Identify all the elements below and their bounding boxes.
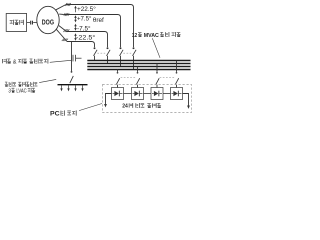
svg-text:&: & [13, 59, 17, 65]
generator DOG [37, 6, 59, 33]
label 12-phase MVAC propulsion bus [132, 32, 181, 39]
label +22.5deg [77, 5, 96, 13]
svg-text:+22.5°: +22.5° [77, 5, 96, 13]
svg-text:MVAC: MVAC [144, 33, 159, 39]
winding stub +22.5 [55, 5, 66, 11]
phasor arrow -22.5 [74, 33, 77, 41]
rectifier feed drop 4 [175, 61, 178, 88]
svg-text:-22.5°: -22.5° [76, 34, 96, 42]
wire sw4 to bus [133, 56, 135, 70]
svg-text:+7.5°: +7.5° [77, 15, 92, 23]
gang link dashes rect 1-2 [121, 77, 136, 79]
phasor arrow +22.5 [74, 6, 77, 13]
wire sw2 to bus [107, 56, 109, 64]
prime mover box (원동기) [6, 14, 26, 32]
gen disconnect switch 2 [107, 47, 111, 56]
gang link dashes rect 3-4 [160, 77, 175, 79]
rectifier feed drop 1 [116, 70, 119, 88]
LVAC feeder arrow 2 [67, 85, 69, 91]
pointer to LVAC bus [39, 79, 56, 82]
label filter & excitation capacitor [2, 59, 48, 66]
gen disconnect switch 1 [94, 47, 98, 56]
winding stub -7.5 [59, 26, 67, 32]
gang link dashes gen 3-4 [123, 52, 131, 54]
MVAC bus line 2 [87, 63, 190, 65]
rectifier feed drop 3 [156, 64, 159, 88]
svg-text:3: 3 [8, 88, 11, 94]
MVAC bus line 1 [87, 60, 190, 62]
diode rectifier box 4 [171, 88, 183, 100]
rectifier feed drop 2 [136, 67, 139, 88]
winding stub +7.5 [59, 13, 64, 15]
LVAC feeder wire [71, 42, 73, 72]
slip-ring hatch 3 [63, 29, 69, 32]
wire +7.5 line [64, 15, 121, 48]
slip-ring hatch 4 [62, 39, 68, 41]
wire sw3 to bus [120, 56, 122, 67]
wire -7.5 line [67, 32, 108, 48]
slip-ring hatch 2 [64, 13, 69, 16]
svg-text:-7.5°: -7.5° [77, 25, 91, 33]
label +7.5deg [77, 15, 92, 23]
label 3-phase LVAC bus line2 [8, 88, 35, 95]
filter capacitor [73, 55, 82, 62]
label to facilities and auxiliaries line1 [5, 82, 38, 87]
diode rectifier box 2 [132, 88, 144, 100]
pointer to capacitor [50, 60, 71, 62]
LVAC feeder arrow 3 [74, 85, 76, 91]
gen disconnect switch 3 [120, 47, 124, 56]
series link left terminal [104, 94, 111, 108]
LVAC feeder arrow 1 [60, 85, 62, 91]
svg-text:PC: PC [50, 111, 60, 118]
diode rectifier box 1 [112, 88, 124, 100]
svg-text:θref: θref [93, 17, 104, 24]
label theta-ref [93, 17, 104, 24]
gen disconnect switch 4 [133, 47, 137, 56]
dashed enclosure PC section [103, 85, 192, 113]
LVAC feeder arrow 4 [81, 85, 83, 91]
phasor arrow +7.5 / ref [74, 15, 77, 22]
series link box2-box3 [144, 93, 152, 95]
3-phase LVAC bus bar [58, 84, 88, 86]
svg-text:12: 12 [132, 33, 137, 39]
svg-text:LVAC: LVAC [16, 88, 27, 94]
label -22.5deg [76, 34, 96, 42]
svg-text:24: 24 [122, 104, 128, 110]
phasor arrow ref / -7.5 [74, 24, 77, 31]
series link right terminal [183, 94, 190, 109]
pointer to MVAC bus [152, 38, 160, 58]
wire +22.5 line [66, 5, 134, 48]
MVAC bus line 3 [87, 66, 190, 68]
LVAC disconnect switch [70, 71, 74, 83]
label -7.5deg [77, 25, 91, 33]
wire sw1 to bus [94, 56, 96, 61]
label PC section [50, 110, 77, 117]
winding stub -22.5 [56, 29, 67, 41]
series link box3-box4 [163, 93, 171, 95]
pointer to PC section [79, 104, 102, 111]
MVAC bus line 4 [87, 69, 190, 71]
gang link dashes gen 1-2 [97, 52, 105, 54]
series link box1-box2 [124, 93, 132, 95]
wire -22.5 line [67, 42, 95, 48]
shaft coupling [27, 21, 37, 25]
slip-ring hatch 1 [65, 3, 70, 6]
svg-text:DOG: DOG [42, 17, 54, 26]
diode rectifier box 3 [151, 88, 163, 100]
label 24-phase series rectifier [122, 103, 161, 110]
